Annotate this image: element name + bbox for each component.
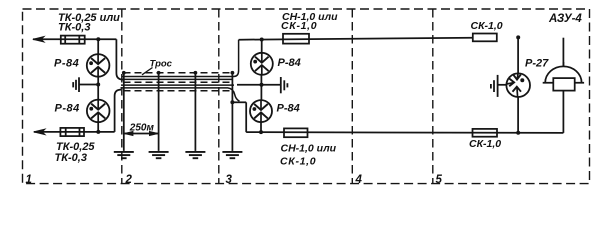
- node junction bottom-left: [96, 130, 100, 134]
- wire bottom bus zones 3-5: [246, 131, 563, 134]
- fuse TK bottom cap left: [65, 128, 67, 136]
- ground pole4: [222, 152, 242, 158]
- node junction top-left: [96, 37, 100, 41]
- frame outer dashed border: [23, 9, 590, 184]
- leader line tros: [142, 68, 153, 75]
- ground pole3: [185, 152, 205, 158]
- arrester P-84 no.2 top shaft: [97, 100, 99, 110]
- arrester P-84 no.4 top shaft: [260, 100, 262, 110]
- svg-text:Трос: Трос: [150, 58, 173, 69]
- cable solid line 2: [121, 78, 233, 80]
- ground P-27 bar2: [493, 80, 495, 92]
- zone divider 3|4: [351, 9, 353, 184]
- cable messenger dashed line 1: [124, 72, 233, 74]
- arrester P-84 no.1 gas dot: [89, 61, 93, 65]
- wire telephone bottom stem: [562, 91, 564, 133]
- svg-text:3: 3: [226, 174, 233, 186]
- ground zone1 bar3: [72, 82, 74, 87]
- node arrester bottom zone3: [259, 130, 263, 134]
- arrester P-27 top electrode: [513, 75, 521, 80]
- telephone earpiece dome: [545, 66, 581, 82]
- svg-text:СН-1,0 или: СН-1,0 или: [281, 142, 337, 154]
- arrester P-84 no.2 gas dot: [89, 107, 93, 111]
- svg-text:СК-1,0: СК-1,0: [471, 20, 503, 32]
- wire P-27 bottom: [517, 97, 519, 133]
- cable messenger dashed line 2: [124, 81, 233, 83]
- fuse TK bottom (thermal coil): [60, 128, 84, 136]
- wire top-left line a: [33, 38, 116, 40]
- arrester P-27 left shaft: [507, 83, 514, 84]
- arrester P-27 bottom electrode: [513, 87, 522, 92]
- arrow left bottom: [34, 129, 45, 134]
- ground zone1 bar1: [78, 77, 80, 92]
- svg-text:Р-27: Р-27: [525, 58, 549, 70]
- wire bottom-left line b: [34, 131, 115, 133]
- dimension arrowhead right: [149, 131, 158, 135]
- node pole4: [231, 71, 235, 75]
- node pole2: [157, 71, 161, 75]
- zone divider 4|5: [432, 9, 434, 184]
- wire vertical axis zone1 lower: [97, 122, 99, 132]
- svg-text:250м: 250м: [129, 123, 155, 134]
- ground wire pole4: [231, 73, 233, 151]
- svg-text:5: 5: [436, 174, 443, 186]
- telephone earpiece top stem: [562, 62, 564, 67]
- fuse SN top zone3: [283, 34, 309, 44]
- arrester P-84 no.4 circle: [250, 100, 272, 122]
- fuse SN bottom zone3: [284, 128, 308, 137]
- arrester P-84 no.1 top shaft: [97, 54, 99, 64]
- arrester P-84 no.1 circle: [87, 54, 110, 77]
- node P-27 top: [516, 35, 520, 39]
- dimension arrowhead left: [124, 131, 133, 135]
- node midpoint zone1: [96, 83, 100, 87]
- svg-text:Р-84: Р-84: [278, 57, 301, 69]
- telephone earpiece box: [553, 78, 574, 91]
- fuse SK bottom zone5: [473, 129, 498, 137]
- fuse TK bottom cap right: [79, 128, 81, 136]
- fuse TK top (thermal coil): [61, 36, 85, 44]
- telephone earpiece base line: [543, 82, 584, 84]
- arrester P-84 no.2 bottom shaft: [97, 113, 99, 123]
- wire cable bottom exit vertical: [245, 102, 247, 132]
- node cable exit: [230, 100, 234, 104]
- wire vertical axis zone1 upper: [97, 39, 99, 54]
- arrester P-84 no.2 bottom electrode: [91, 112, 105, 118]
- node arrester top zone3: [260, 38, 264, 42]
- arrester P-84 no.2 top electrode: [91, 104, 105, 110]
- svg-text:АЗУ-4: АЗУ-4: [548, 13, 582, 25]
- wire arrester drop zone3: [261, 40, 263, 54]
- ground wire pole1: [123, 73, 125, 151]
- dimension 250m arrow line: [124, 133, 159, 135]
- arrester P-27 gas dot: [520, 78, 524, 82]
- arrester P-27 top shaft: [516, 73, 519, 79]
- ground wire pole2: [158, 73, 160, 151]
- wire rise to cable left end (lower): [115, 90, 121, 132]
- wire to ground zone3: [237, 84, 281, 86]
- ground wire pole3: [194, 73, 196, 151]
- arrester P-27 left electrode: [509, 79, 514, 87]
- wire vertical axis zone1 middle: [97, 77, 99, 100]
- arrester P-84 no.3 bottom electrode: [255, 65, 269, 71]
- wire drop to cable left end (upper): [116, 39, 123, 79]
- wire P-27 drop: [517, 37, 519, 73]
- node P-27 bottom: [516, 131, 520, 135]
- wire vertical axis zone3 lower: [260, 122, 262, 132]
- svg-text:Р-84: Р-84: [54, 57, 79, 69]
- arrester P-84 no.1 bottom shaft: [97, 67, 99, 77]
- wire vertical axis zone3 middle: [260, 75, 262, 101]
- svg-text:2: 2: [125, 174, 133, 186]
- svg-text:ТК-0,3: ТК-0,3: [58, 21, 90, 33]
- ground zone3 bar3: [286, 83, 288, 87]
- arrester P-84 no.3 top electrode: [255, 57, 269, 63]
- arrester P-84 no.4 top electrode: [254, 104, 268, 110]
- svg-text:СК-1,0: СК-1,0: [469, 138, 501, 150]
- svg-text:Р-84: Р-84: [55, 102, 80, 114]
- svg-text:Р-84: Р-84: [277, 103, 300, 115]
- svg-text:СК-1,0: СК-1,0: [280, 155, 316, 167]
- arrester P-84 no.4 bottom electrode: [254, 112, 268, 118]
- wire cable bottom exit horizontal: [232, 101, 247, 103]
- fuse TK top cap right: [78, 36, 80, 44]
- zone divider 1|2: [121, 9, 123, 184]
- zone divider 2|3: [218, 9, 220, 184]
- arrester P-27 bottom shaft: [516, 87, 519, 97]
- wire telephone drop right: [562, 38, 564, 67]
- cable solid line 3: [121, 84, 234, 86]
- arrester P-84 no.3 top shaft: [261, 53, 263, 63]
- svg-text:1: 1: [26, 174, 32, 186]
- wire to ground zone1: [79, 84, 98, 86]
- svg-text:ТК-0,3: ТК-0,3: [55, 152, 87, 164]
- wire P-27 to ground: [498, 84, 507, 86]
- ground P-27 bar1: [497, 75, 499, 97]
- arrester P-84 no.2 circle: [87, 100, 110, 123]
- wire top bus zones 3-5: [239, 38, 473, 40]
- cable solid line 4 with right exit hook: [121, 88, 240, 101]
- svg-text:4: 4: [355, 174, 363, 186]
- ground zone3 bar1: [280, 77, 282, 93]
- arrester P-27 circle: [506, 73, 530, 97]
- ground pole2: [149, 152, 169, 158]
- ground zone1 bar2: [75, 80, 77, 90]
- ground P-27 bar3: [490, 84, 492, 89]
- ground pole1: [114, 152, 134, 158]
- arrester P-84 no.3 circle: [251, 53, 273, 75]
- cable solid line 1: [122, 40, 239, 77]
- node midpoint zone3: [260, 83, 264, 87]
- arrester P-84 no.1 bottom electrode: [91, 67, 105, 73]
- ground zone3 bar2: [283, 80, 285, 90]
- fuse SK top zone5: [473, 34, 497, 42]
- node pole1: [122, 71, 126, 75]
- arrester P-84 no.3 bottom shaft: [261, 65, 263, 74]
- arrester P-84 no.3 gas dot: [253, 60, 257, 64]
- arrow left top: [33, 37, 44, 42]
- arrester P-84 no.1 top electrode: [91, 58, 105, 64]
- node pole3: [194, 71, 198, 75]
- cable messenger dashed line 3: [124, 90, 233, 92]
- arrester P-84 no.4 gas dot: [253, 107, 257, 111]
- fuse TK top cap left: [64, 36, 66, 44]
- svg-text:СК-1,0: СК-1,0: [281, 20, 317, 32]
- arrester P-84 no.4 bottom shaft: [260, 113, 262, 122]
